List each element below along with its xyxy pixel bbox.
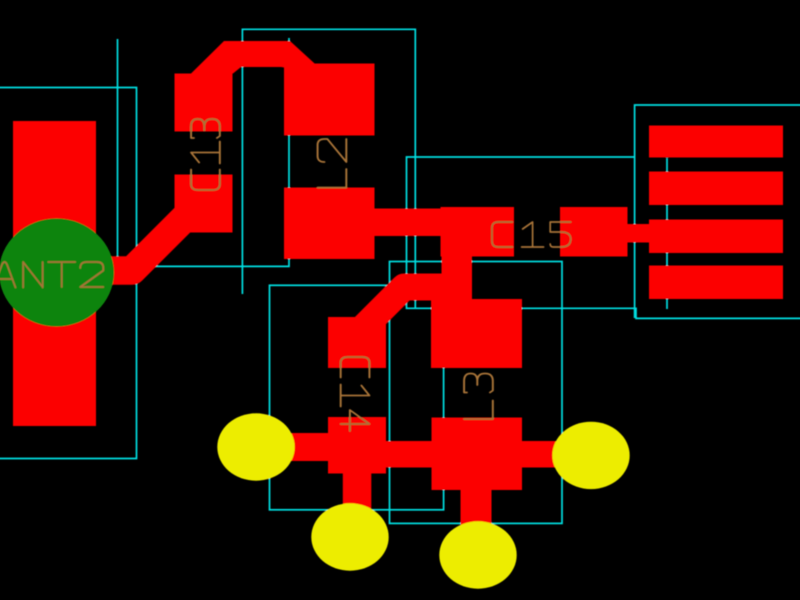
pad C13 pin 2 bbox=[175, 175, 233, 233]
label L2 bbox=[318, 139, 347, 188]
wire trace C15 to connector neck bbox=[628, 224, 650, 243]
via A bbox=[217, 413, 294, 480]
pad C15 pin 1 bbox=[441, 207, 515, 257]
pad C14 pin 2 bbox=[328, 417, 386, 474]
pad ANT2 rectangle bbox=[13, 121, 96, 426]
wire trace via A to C14 bbox=[254, 433, 328, 461]
via B bbox=[311, 503, 388, 570]
pad C14 pin 1 bbox=[328, 317, 386, 368]
pad connector pin 1 bbox=[649, 126, 783, 158]
pad C15 pin 2 bbox=[560, 207, 628, 257]
pad connector pin 4 bbox=[649, 266, 783, 300]
pad L2 pin 2 bbox=[284, 188, 375, 260]
wire trace mid horizontal and diagonal to C14 bbox=[358, 287, 447, 334]
wire trace C14 stub to via B bbox=[343, 474, 372, 538]
label L3 bbox=[464, 374, 493, 420]
pad L3 pin 2 bbox=[432, 418, 523, 491]
outline connector inner line bbox=[666, 158, 668, 309]
outline box ANT2 courtyard bbox=[0, 88, 137, 459]
pad connector pin 2 bbox=[649, 172, 783, 206]
wire vertical net line x117 bbox=[117, 39, 119, 267]
pad C13 pin 1 bbox=[175, 74, 233, 132]
via C bbox=[439, 521, 516, 588]
outline connector box bbox=[635, 105, 800, 318]
wire trace L2 to C15 bbox=[375, 209, 441, 237]
outline C14 box bbox=[270, 285, 444, 510]
outline L3 box bbox=[390, 262, 563, 524]
via D bbox=[552, 422, 629, 489]
wire trace L3 stub to via C bbox=[461, 490, 492, 555]
outline L2 box bbox=[137, 38, 290, 266]
wire trace ANT2 to C13 bbox=[95, 203, 200, 271]
outline box C13/L2 group bbox=[242, 29, 415, 308]
pad L2 pin 1 bbox=[284, 64, 375, 136]
wire trace C14 to L3 to via D bbox=[386, 441, 591, 468]
wire trace C15 down band bbox=[442, 257, 473, 301]
outline C15 box bbox=[407, 157, 800, 318]
wire trace C13 to L2 bend bbox=[191, 41, 319, 74]
label C15 bbox=[492, 222, 571, 247]
reference labels (vector font) bbox=[0, 119, 571, 431]
pad L3 pin 1 bbox=[431, 299, 522, 368]
label ANT2 bbox=[0, 262, 103, 288]
pad ANT2 round (green) bbox=[0, 219, 114, 327]
label C14 bbox=[341, 357, 370, 431]
pad connector pin 3 bbox=[649, 220, 783, 254]
label C13 bbox=[191, 119, 220, 190]
